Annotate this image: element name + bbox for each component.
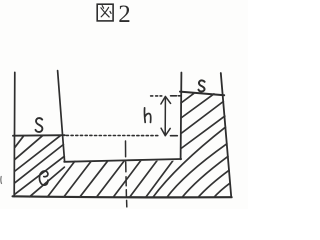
hatch bottom band: [47, 127, 230, 198]
left outer wall V1: [13, 72, 16, 196]
inner vessel bottom H3: [64, 159, 181, 162]
hatch left column: [15, 136, 64, 197]
arrow h (double headed): [161, 96, 171, 135]
center axis dashed line: [126, 141, 127, 207]
inner vessel left wall V2: [58, 71, 65, 162]
title kanji ZU (figure) drawn box: [97, 4, 113, 21]
left liquid surface H1: [13, 134, 65, 137]
top dashed level line: [151, 95, 181, 97]
inner vessel right wall V3: [180, 73, 183, 160]
hatch right column: [181, 93, 225, 148]
outer vessel bottom H4: [13, 196, 232, 197]
scan artifact left edge: [0, 177, 3, 184]
right outer wall V4: [221, 73, 231, 196]
label h: [144, 108, 150, 123]
label rho (density): [39, 171, 47, 185]
svg-text:2: 2: [118, 1, 131, 28]
label S right: [199, 80, 205, 91]
label S left: [36, 118, 43, 132]
right liquid surface H2: [180, 92, 224, 96]
bottom dashed level line: [66, 134, 177, 136]
